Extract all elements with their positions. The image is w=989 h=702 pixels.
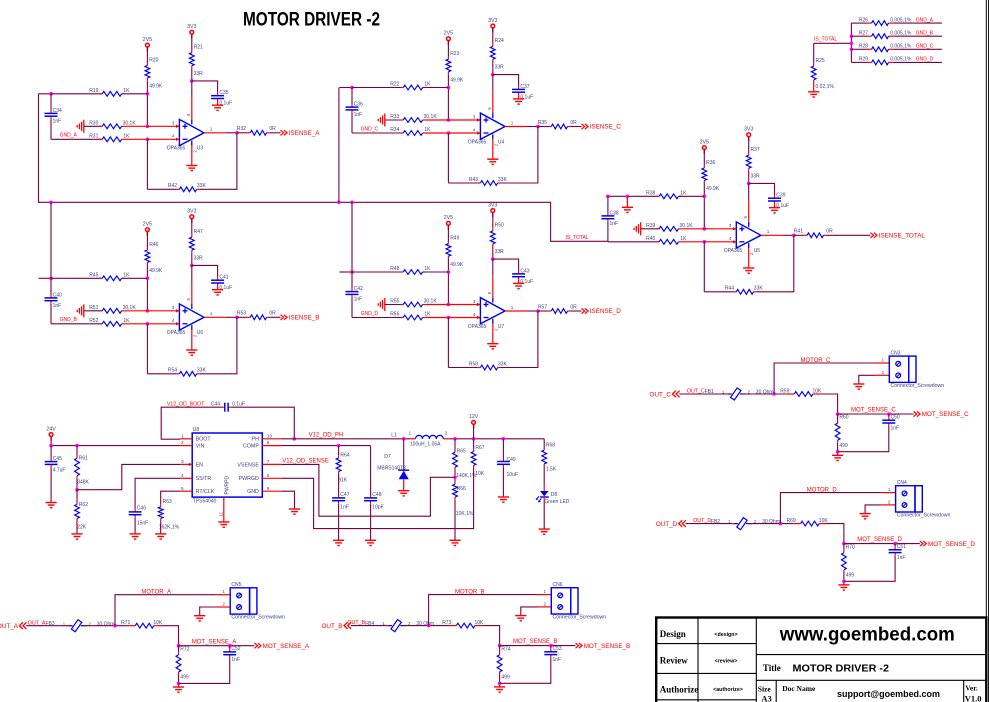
wire left rail <box>340 271 353 273</box>
wire 10K to sense <box>820 394 837 414</box>
net label GND_D <box>916 57 934 63</box>
resistor R20 49.9K <box>145 57 163 89</box>
resistor R71 10K <box>121 620 163 628</box>
junction <box>447 131 451 135</box>
wire 30.1K to pin3 <box>425 304 448 306</box>
net label MOTOR_B <box>455 590 485 596</box>
svg-text:D8: D8 <box>551 492 558 498</box>
wire divider to pin3 node <box>146 265 148 311</box>
wire feedback right <box>500 127 538 184</box>
svg-text:499: 499 <box>839 443 848 449</box>
pin number 4 <box>473 312 476 317</box>
wire out to bead <box>686 523 736 525</box>
net arrow MOT_SENSE_A <box>254 643 310 650</box>
svg-text:30 Ohm: 30 Ohm <box>762 519 780 525</box>
capacitor C41 0.1uF <box>211 275 232 291</box>
junction <box>502 437 506 441</box>
svg-text:4: 4 <box>473 127 476 132</box>
ground <box>449 540 460 545</box>
signal ground <box>77 304 84 317</box>
resistor R21 33R <box>189 45 203 77</box>
resistor R44 33K <box>725 286 764 295</box>
wire cap to ground <box>217 102 219 106</box>
junction <box>893 542 897 546</box>
net label GND_D <box>361 311 379 317</box>
svg-text:V1.0: V1.0 <box>965 694 982 702</box>
wire 30.1K to pin3 <box>425 119 448 121</box>
capacitor C53 1nF <box>544 646 562 663</box>
svg-text:0.005,1%: 0.005,1% <box>890 57 912 63</box>
svg-text:R46: R46 <box>149 242 158 248</box>
junction <box>337 201 341 205</box>
junction <box>836 412 840 416</box>
resistor R62 22K <box>75 490 89 531</box>
junction <box>536 125 540 129</box>
svg-text:49.9K: 49.9K <box>450 77 464 83</box>
wire bead to junction <box>748 523 793 525</box>
wire motor net <box>774 363 875 394</box>
resistor R66 10K,1% <box>453 482 474 518</box>
svg-text:0R: 0R <box>826 229 833 235</box>
wire bead to junction <box>742 393 787 395</box>
wire opamp V- to ground <box>748 248 750 268</box>
wire VIN to R61 <box>76 446 78 456</box>
wire out to bead <box>679 393 729 395</box>
wire 10K to sense <box>482 626 499 646</box>
pin number 1 <box>210 311 213 316</box>
svg-text:R27: R27 <box>859 30 868 36</box>
svg-text:3: 3 <box>473 299 476 304</box>
wire R66 to gnd <box>454 500 456 541</box>
svg-text:CN3: CN3 <box>891 350 901 356</box>
svg-text:C51: C51 <box>897 544 906 550</box>
wire sense bus <box>850 23 852 62</box>
svg-text:1K: 1K <box>123 134 130 140</box>
wire C47 to gnd <box>338 504 340 541</box>
svg-text:OPA365: OPA365 <box>167 146 186 152</box>
junction <box>235 131 239 135</box>
svg-text:OPA365: OPA365 <box>724 248 743 254</box>
wire rail to block D <box>351 202 353 272</box>
ground <box>498 497 509 502</box>
pin 1 stub <box>881 487 895 493</box>
svg-text:R33: R33 <box>390 114 399 120</box>
svg-text:R34: R34 <box>390 127 399 133</box>
wire rail to R68 <box>543 439 545 448</box>
resistor R60 499 <box>835 414 849 449</box>
net label GND_B <box>916 30 934 36</box>
wire IS_TOTAL tee <box>814 42 852 44</box>
svg-text:12V: 12V <box>469 414 479 420</box>
wire rail to block C <box>338 88 340 203</box>
junction <box>49 92 53 96</box>
svg-text:11: 11 <box>218 511 223 516</box>
net arrow OUT_A <box>0 622 27 630</box>
pin 6 stub <box>262 473 281 479</box>
wire 24V to VIN <box>51 436 180 445</box>
resistor R19 1K <box>89 88 130 96</box>
resistor R59 10K <box>780 388 822 396</box>
svg-text:33K: 33K <box>197 368 207 374</box>
pin number 4 <box>172 134 175 139</box>
wire 10K to sense <box>827 524 844 544</box>
pin number 1 <box>511 120 514 125</box>
wire COMP to C48 <box>370 446 372 495</box>
svg-text:GND_A: GND_A <box>60 133 78 139</box>
svg-text:GND_B: GND_B <box>60 317 78 323</box>
pin 3 EN arrow <box>189 463 192 466</box>
junction <box>235 316 239 320</box>
junction gnd tap <box>626 195 630 199</box>
wire 499 to gnd <box>499 675 501 687</box>
svg-text:GND_D: GND_D <box>361 311 379 317</box>
resistor R53 0R <box>237 311 276 320</box>
junction <box>177 644 181 648</box>
svg-text:4: 4 <box>172 318 175 323</box>
svg-text:C40: C40 <box>53 292 62 298</box>
wire cap to ground <box>217 286 219 290</box>
svg-text:162K,1%: 162K,1% <box>159 525 180 531</box>
svg-text:OUT_C: OUT_C <box>687 389 705 395</box>
resistor R23 49.9K <box>446 51 464 83</box>
ground <box>494 687 505 692</box>
wire D8 to gnd <box>543 497 545 529</box>
svg-text:GND_A: GND_A <box>916 17 934 23</box>
svg-text:3: 3 <box>181 459 184 465</box>
net label GND_B <box>60 317 78 323</box>
svg-text:30 Ohm: 30 Ohm <box>97 621 115 627</box>
resistor R25 0.02,1% <box>811 58 834 90</box>
net label V12_OD_BOOT <box>167 402 205 408</box>
power 3V3 <box>744 127 753 142</box>
wire divider to pin3 node <box>447 74 449 120</box>
svg-text:5: 5 <box>186 113 191 116</box>
junction <box>850 34 854 38</box>
junction <box>703 240 707 244</box>
wire IS_TOTAL down <box>813 43 815 63</box>
svg-text:1nF: 1nF <box>610 221 619 227</box>
wire feedback right <box>199 133 237 190</box>
wire R63 to gnd <box>160 521 162 534</box>
svg-text:4: 4 <box>473 312 476 317</box>
wire cap to gnd row <box>50 119 52 139</box>
svg-text:R42: R42 <box>168 183 177 189</box>
svg-text:2V5: 2V5 <box>143 221 152 227</box>
wire cap to ground <box>518 95 520 99</box>
wire opamp V- to ground <box>492 139 494 159</box>
svg-text:1K: 1K <box>680 191 687 197</box>
junction supply <box>190 79 194 83</box>
wire 3V3 to 33R <box>492 212 494 228</box>
pin number 1 <box>210 127 213 132</box>
resistor R39 30.1K <box>646 223 693 231</box>
svg-text:33K: 33K <box>498 177 508 183</box>
wire feedback right <box>756 235 794 291</box>
resistor R63 162K,1% <box>158 499 179 531</box>
resistor R35 0R <box>538 120 577 129</box>
wire opamp V- to ground <box>191 146 193 166</box>
svg-text:2: 2 <box>181 440 184 446</box>
svg-text:5: 5 <box>487 291 492 294</box>
svg-text:4: 4 <box>172 134 175 139</box>
power 2V5 <box>143 37 152 52</box>
svg-text:FB4: FB4 <box>365 621 374 627</box>
net label MOT_SENSE_B <box>513 639 557 645</box>
wire to net arrow <box>269 316 280 318</box>
ground <box>186 350 197 355</box>
wire top row <box>51 277 102 279</box>
svg-text:499: 499 <box>846 573 855 579</box>
svg-text:9: 9 <box>267 486 270 492</box>
wire 2V5 to R-divider <box>447 225 449 241</box>
svg-text:R52: R52 <box>89 318 98 324</box>
svg-text:3V3: 3V3 <box>488 202 497 208</box>
svg-text:R37: R37 <box>751 147 760 153</box>
op-amp U6 OPA365 <box>167 298 204 338</box>
wire out to R53 <box>237 316 248 318</box>
svg-text:0.005,1%: 0.005,1% <box>890 30 912 36</box>
junction <box>146 125 150 129</box>
wire PH to L1 <box>282 438 410 440</box>
junction <box>427 624 431 628</box>
power 3V3 <box>187 24 196 38</box>
svg-text:Doc Name: Doc Name <box>782 684 816 693</box>
net arrow OUT_D <box>656 520 686 528</box>
wire cap to gnd <box>179 658 230 684</box>
svg-text:VSENSE: VSENSE <box>237 462 259 468</box>
wire cap to gnd <box>500 658 551 684</box>
svg-text:R43: R43 <box>469 177 478 183</box>
net label OUT_D <box>693 518 711 524</box>
svg-text:0.02,1%: 0.02,1% <box>816 84 835 90</box>
resistor R52 1K <box>89 318 130 326</box>
wire pin3 stub <box>704 227 736 230</box>
svg-text:MOT_SENSE_B: MOT_SENSE_B <box>584 643 631 650</box>
svg-text:ISENSE_TOTAL: ISENSE_TOTAL <box>879 233 926 240</box>
svg-text:0R: 0R <box>269 126 276 132</box>
svg-text:30 Ohm: 30 Ohm <box>756 390 774 396</box>
resistor R69 10K <box>787 518 829 526</box>
svg-text:33K: 33K <box>498 361 508 367</box>
wire D7 to gnd <box>403 479 405 490</box>
svg-text:R64: R64 <box>340 452 349 458</box>
pin 10 stub <box>262 433 281 439</box>
connector CN3 Connector_Screwdown <box>889 350 944 389</box>
wire pin4 stub <box>448 131 480 134</box>
pin number 4 <box>729 236 732 241</box>
junction <box>549 644 553 648</box>
svg-text:R28: R28 <box>859 44 868 50</box>
capacitor C44 0.1uF <box>211 402 245 412</box>
svg-text:1: 1 <box>511 120 514 125</box>
capacitor C45 4.7uF <box>45 456 66 473</box>
net arrow OUT_B <box>322 622 352 630</box>
ground <box>212 105 223 110</box>
svg-text:R41: R41 <box>794 229 803 235</box>
wire out to R41 <box>794 234 805 236</box>
net label GND_A <box>916 17 934 23</box>
svg-text:R30: R30 <box>89 121 98 127</box>
wire divider to pin3 node <box>146 81 148 127</box>
net arrow ISENSE_B <box>281 315 320 322</box>
wire supply to opamp V+ <box>748 183 750 222</box>
pin 9 stub <box>262 486 281 492</box>
svg-text:5: 5 <box>743 216 748 219</box>
wire PWRGD route <box>282 468 474 529</box>
svg-text:OUT_B: OUT_B <box>347 620 365 626</box>
net label OUT_B <box>347 620 365 626</box>
junction <box>113 624 117 628</box>
svg-text:ISENSE_D: ISENSE_D <box>590 308 622 315</box>
svg-text:1K: 1K <box>123 88 130 94</box>
wire top row <box>51 93 102 95</box>
svg-text:R62: R62 <box>79 502 88 508</box>
junction <box>447 316 451 320</box>
net label GND_C <box>916 44 934 50</box>
junction <box>447 118 451 122</box>
svg-text:R73: R73 <box>442 620 451 626</box>
svg-text:30.1K: 30.1K <box>424 114 438 120</box>
signal ground <box>634 222 641 235</box>
svg-text:R21: R21 <box>194 45 203 51</box>
svg-text:R57: R57 <box>538 304 547 310</box>
title block frame <box>656 618 986 702</box>
net label OUT_A <box>28 620 46 626</box>
ground <box>71 534 82 539</box>
wire SS/TR route <box>135 478 180 509</box>
svg-text:MOTOR DRIVER -2: MOTOR DRIVER -2 <box>793 663 890 674</box>
svg-text:R31: R31 <box>89 134 98 140</box>
junction <box>337 444 341 448</box>
wire R65-R66 node <box>454 470 456 482</box>
wire out to R35 <box>538 126 549 128</box>
svg-text:348K: 348K <box>77 480 89 486</box>
net label MOT_SENSE_A <box>192 639 236 645</box>
power 2V5 <box>143 221 152 236</box>
svg-text:R36: R36 <box>706 160 715 166</box>
svg-text:2V5: 2V5 <box>444 215 453 221</box>
junction <box>850 48 854 52</box>
svg-text:R61: R61 <box>79 456 88 462</box>
svg-text:R71: R71 <box>121 620 130 626</box>
svg-text:5: 5 <box>487 107 492 110</box>
svg-text:1K: 1K <box>680 236 687 242</box>
wire L1 to 12V rail <box>449 438 544 440</box>
net label IS_TOTAL <box>566 235 589 241</box>
net label MOT_SENSE_D <box>857 537 902 543</box>
resistor R37 33R <box>746 147 760 179</box>
pin 2 stub <box>216 602 230 608</box>
wire sense row <box>838 413 914 415</box>
svg-text:1nF: 1nF <box>891 425 900 431</box>
svg-text:C43: C43 <box>520 268 529 274</box>
svg-text:Connector_Screwdown: Connector_Screwdown <box>231 615 285 621</box>
pin number 1 <box>511 305 514 310</box>
wire cap to gnd <box>838 426 889 452</box>
power 2V5 <box>444 31 453 46</box>
svg-text:C46: C46 <box>137 506 146 512</box>
svg-text:OUT_D: OUT_D <box>693 518 711 524</box>
svg-text:MOTOR DRIVER -2: MOTOR DRIVER -2 <box>243 10 380 31</box>
capacitor C46 15nF <box>129 506 149 527</box>
svg-text:49.9K: 49.9K <box>149 84 163 90</box>
svg-text:Connector_Screwdown: Connector_Screwdown <box>897 513 951 519</box>
wire supply to opamp V+ <box>492 259 494 298</box>
junction <box>350 201 354 205</box>
wire divider to pin3 node <box>447 259 449 305</box>
svg-text:C44: C44 <box>211 402 220 408</box>
junction supply <box>747 182 751 186</box>
svg-text:33R: 33R <box>194 255 204 261</box>
wire gnd row <box>51 323 102 325</box>
net label V12_OD_PH <box>309 432 344 438</box>
svg-text:R72: R72 <box>180 646 189 652</box>
svg-text:30.1K: 30.1K <box>680 223 694 229</box>
wire feedback left <box>147 373 176 375</box>
net label MOTOR_C <box>801 358 832 364</box>
pin 1 stub <box>216 589 230 595</box>
power 3V3 <box>488 18 497 33</box>
resistor R38 1K <box>646 191 687 199</box>
svg-text:C50: C50 <box>891 414 900 420</box>
svg-text:Title: Title <box>763 663 781 673</box>
svg-text:R44: R44 <box>725 286 734 292</box>
ground <box>743 268 754 273</box>
svg-text:CN4: CN4 <box>897 480 907 486</box>
svg-text:CN6: CN6 <box>553 582 563 588</box>
svg-text:R40: R40 <box>646 236 655 242</box>
svg-text:GND: GND <box>247 489 259 495</box>
svg-text:C48: C48 <box>372 492 381 498</box>
svg-text:5: 5 <box>181 486 184 492</box>
wire divider to pin3 node <box>703 183 705 229</box>
wire 33R to supply node <box>191 68 193 81</box>
net arrow MOT_SENSE_B <box>576 643 631 650</box>
wire gnd row <box>51 138 102 140</box>
svg-text:GND_C: GND_C <box>361 126 379 132</box>
svg-text:PWRPD: PWRPD <box>225 476 231 495</box>
svg-text:2V5: 2V5 <box>143 37 152 43</box>
pin 7 stub <box>262 459 281 465</box>
svg-text:R65: R65 <box>457 449 466 455</box>
svg-text:1.5K: 1.5K <box>546 467 557 473</box>
junction <box>772 392 776 396</box>
ground <box>853 384 864 389</box>
junction <box>887 412 891 416</box>
junction <box>402 437 406 441</box>
svg-text:SS/TR: SS/TR <box>196 476 212 482</box>
svg-text:PWRGD: PWRGD <box>239 476 259 482</box>
junction <box>146 322 150 326</box>
svg-text:C39: C39 <box>776 193 785 199</box>
ground <box>808 92 819 97</box>
svg-text:R29: R29 <box>859 57 868 63</box>
svg-text:U7: U7 <box>498 324 505 330</box>
wire output <box>204 132 237 134</box>
junction <box>447 86 451 90</box>
svg-text:2: 2 <box>882 370 885 375</box>
page border <box>986 0 988 702</box>
svg-text:10: 10 <box>267 433 273 439</box>
svg-text:8: 8 <box>267 440 270 446</box>
wire output <box>761 234 794 236</box>
wire pin4 stub <box>147 138 179 141</box>
wire to net arrow <box>570 310 581 312</box>
svg-text:33R: 33R <box>495 65 505 71</box>
ground <box>838 585 849 590</box>
wire out to R57 <box>538 310 549 312</box>
wire 2V5 to R-divider <box>146 231 148 247</box>
